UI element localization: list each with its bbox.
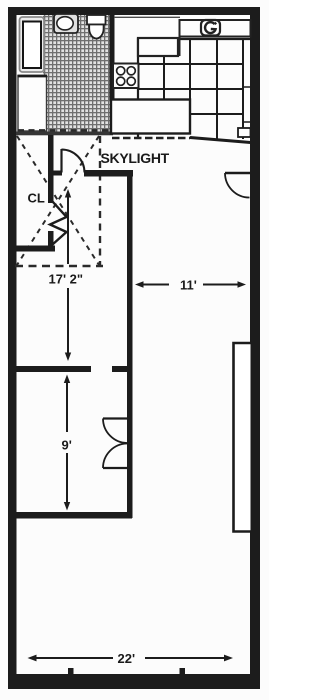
kitchen sink counter: [180, 20, 251, 37]
svg-text:17' 2": 17' 2": [49, 272, 84, 287]
french door lower swing arc: [103, 444, 127, 469]
wall: bedroom south: [14, 512, 132, 519]
dimension 9' upper arrow: [64, 375, 70, 433]
dashed skylight outline: bottom edge: [15, 265, 103, 267]
wall: closet right lower: [48, 231, 54, 251]
window tick right on bottom wall: [180, 668, 186, 675]
french door upper swing arc: [103, 419, 127, 444]
kitchen peninsula counter: [111, 100, 190, 134]
bathroom tiled floor (hatched): [43, 15, 110, 133]
window tick left on bottom wall: [68, 668, 74, 675]
stove with 4 burners: [113, 64, 139, 89]
wall: bathroom/kitchen divider: [110, 15, 115, 100]
wall: closet bottom: [16, 246, 55, 252]
niche/chase along right wall: [234, 343, 251, 532]
dashed skylight diagonal NW-SE: [17, 136, 99, 265]
toilet: [87, 15, 106, 25]
kitchen tiled counter grid: [138, 39, 251, 139]
svg-text:SKYLIGHT: SKYLIGHT: [101, 150, 170, 166]
kitchen right counter strip: [238, 39, 251, 139]
bathroom vanity cabinet: [18, 76, 47, 132]
bathroom door leaf: [60, 149, 62, 173]
svg-text:22': 22': [118, 651, 136, 666]
wall: hinge stub at bathroom door: [48, 171, 62, 176]
svg-text:9': 9': [62, 438, 72, 453]
wall: right exterior: [250, 7, 260, 689]
wall: bottom exterior: [8, 674, 260, 689]
kitchen sink basin (G symbol): [201, 20, 220, 36]
line: sink counter left jamb: [179, 37, 181, 57]
wall: closet right upper: [48, 135, 54, 203]
dashed line: kitchen floor edge: [112, 137, 190, 139]
closet bifold door: [50, 202, 67, 245]
dimension 17'2" lower arrow: [65, 288, 71, 361]
kitchen upper-left cabinet bar: [138, 38, 178, 56]
dimension 22' left arrow: [28, 655, 114, 662]
wall: bedroom north left segment: [14, 366, 91, 372]
french door upper leaf: [103, 417, 127, 419]
line: kitchen top wall inner face: [114, 16, 180, 18]
wall: long corridor/bedroom east wall: [127, 170, 133, 518]
dashed skylight diagonal NE-SW: [17, 136, 99, 265]
dimension 9' lower arrow: [64, 453, 70, 511]
dimension 22' right arrow: [145, 655, 233, 662]
line: kitchen counter bottom edge: [190, 138, 251, 143]
svg-text:11': 11': [180, 278, 197, 293]
wall: top exterior: [8, 7, 260, 15]
wall: bedroom north right segment: [112, 366, 129, 372]
french door lower leaf: [103, 467, 127, 469]
dashed skylight outline: top edge over bathroom: [18, 129, 111, 131]
wall: bathroom bottom (grey floor edge): [16, 132, 113, 136]
wall: hall south (below SKYLIGHT): [84, 170, 133, 177]
entry door swing arc: [225, 173, 250, 198]
bathroom sink: [54, 14, 78, 33]
dimension 11' left arrow: [135, 281, 169, 287]
dashed skylight outline: right edge: [99, 136, 101, 266]
bathroom door swing arc: [62, 150, 85, 173]
entry door leaf (right wall): [225, 172, 251, 175]
bathtub: [20, 17, 45, 72]
svg-text:CL: CL: [28, 191, 45, 206]
dimension 17'2" upper arrow: [65, 189, 71, 264]
wall: left exterior: [8, 7, 17, 689]
dimension 11' right arrow: [203, 281, 246, 287]
